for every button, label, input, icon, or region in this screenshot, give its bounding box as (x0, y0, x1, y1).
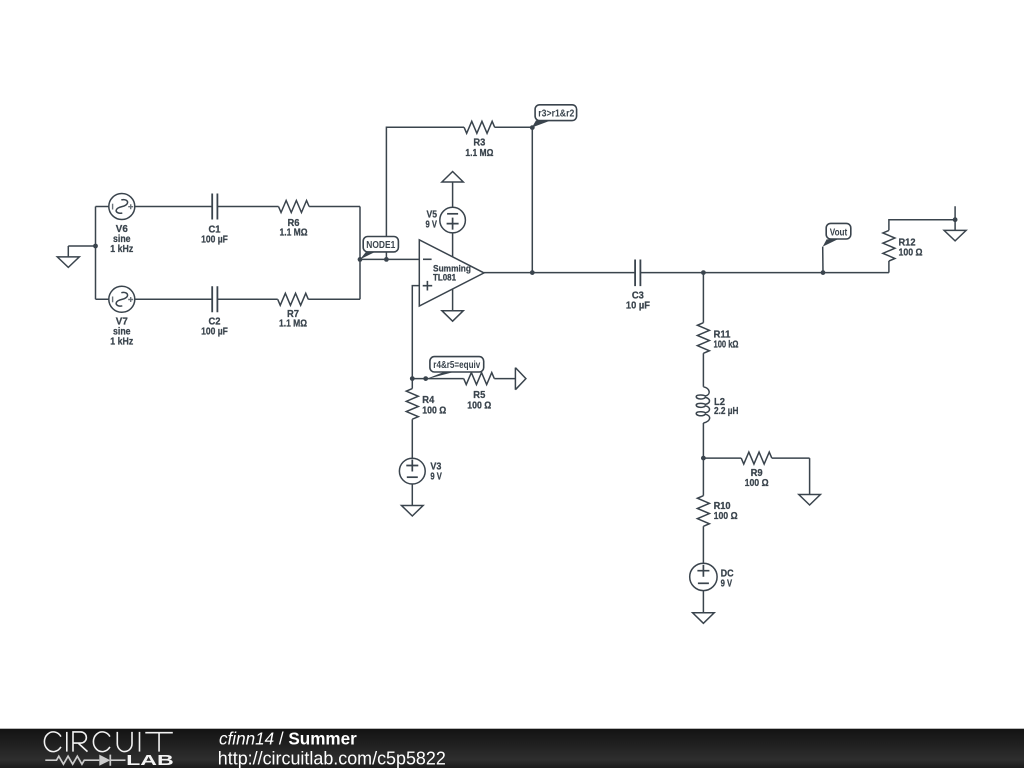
svg-text:r3>r1&r2: r3>r1&r2 (538, 109, 574, 120)
svg-text:cfinn14 / Summer: cfinn14 / Summer (219, 730, 357, 749)
svg-text:1.1 MΩ: 1.1 MΩ (465, 148, 493, 159)
svg-text:100 Ω: 100 Ω (745, 478, 769, 489)
svg-text:2.2 µH: 2.2 µH (714, 406, 739, 417)
svg-text:10 µF: 10 µF (626, 301, 650, 312)
svg-text:R3: R3 (473, 138, 485, 149)
svg-text:1.1 MΩ: 1.1 MΩ (279, 319, 307, 330)
svg-text:100 Ω: 100 Ω (899, 248, 923, 259)
svg-text:100 Ω: 100 Ω (422, 405, 446, 416)
svg-text:NODE1: NODE1 (366, 240, 395, 251)
svg-text:http://circuitlab.com/c5p5822: http://circuitlab.com/c5p5822 (218, 749, 446, 768)
svg-text:100 µF: 100 µF (201, 326, 228, 337)
svg-text:9 V: 9 V (430, 472, 442, 483)
svg-text:100 kΩ: 100 kΩ (714, 339, 739, 350)
svg-text:Vout: Vout (830, 227, 848, 238)
svg-text:9 V: 9 V (721, 578, 733, 589)
svg-text:LAB: LAB (126, 753, 174, 768)
svg-text:1.1 MΩ: 1.1 MΩ (280, 227, 308, 238)
svg-text:1 kHz: 1 kHz (110, 337, 133, 348)
svg-text:1 kHz: 1 kHz (110, 244, 133, 255)
svg-text:r4&r5=equiv: r4&r5=equiv (433, 360, 480, 371)
svg-text:9 V: 9 V (426, 219, 438, 230)
svg-text:100 Ω: 100 Ω (714, 511, 738, 522)
svg-text:100 µF: 100 µF (201, 235, 228, 246)
svg-text:100 Ω: 100 Ω (467, 400, 491, 411)
svg-text:TL081: TL081 (433, 273, 456, 283)
